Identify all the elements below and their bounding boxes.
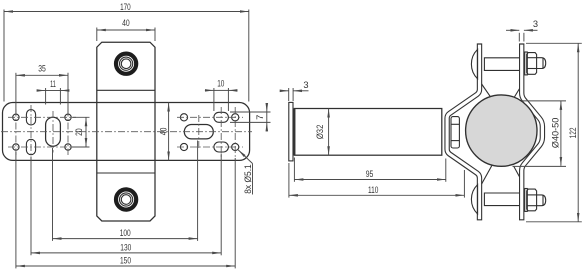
bolt head xyxy=(471,49,477,78)
leader 8x Ø5.1 xyxy=(238,150,253,195)
svg-text:10: 10 xyxy=(217,78,224,88)
svg-text:11: 11 xyxy=(50,79,56,89)
svg-text:20: 20 xyxy=(74,128,84,136)
slot oval H1 xyxy=(214,112,229,122)
centerline col x31 xyxy=(30,105,32,160)
bolt shaft xyxy=(484,58,519,71)
hole B1 xyxy=(65,114,71,120)
boss bottom (grommet) xyxy=(116,189,136,209)
svg-text:7: 7 xyxy=(255,115,265,120)
dimension 40 vertical xyxy=(159,103,169,161)
dimension 3 left xyxy=(281,80,309,101)
top bolt assembly xyxy=(471,49,545,78)
clamp nut block xyxy=(451,117,459,148)
dimension Ø32 xyxy=(315,109,328,156)
slot oval V1 xyxy=(26,110,35,125)
hole B2 xyxy=(65,144,71,150)
strap cross line bottom-right xyxy=(514,166,520,177)
hole C1 xyxy=(180,114,187,121)
svg-text:100: 100 xyxy=(120,228,131,238)
centerline col x235.2 xyxy=(234,107,236,158)
svg-text:110: 110 xyxy=(368,185,378,195)
svg-text:8x Ø5.1: 8x Ø5.1 xyxy=(243,164,253,194)
dimension 150 xyxy=(16,152,235,268)
dimension 110 xyxy=(289,163,465,198)
centerline col x221.2 xyxy=(220,107,222,158)
svg-text:130: 130 xyxy=(120,242,131,252)
tube body xyxy=(294,109,442,156)
clamp strap right (inner white) xyxy=(522,45,543,220)
strap cross line top-right xyxy=(514,89,520,99)
dimension 95 xyxy=(294,158,445,182)
svg-text:95: 95 xyxy=(366,169,374,179)
clamp strap left (inner white) xyxy=(447,45,479,220)
strap cross line top-left xyxy=(482,84,492,98)
centerline row2 right xyxy=(177,146,243,148)
boss top (grommet) xyxy=(116,54,136,74)
slot oval H2 xyxy=(214,142,229,152)
centerline col x68 xyxy=(67,110,69,156)
svg-text:40: 40 xyxy=(122,18,130,28)
dimension 10 xyxy=(205,78,238,111)
strap cross line bottom-left xyxy=(482,166,492,184)
tube flange disc xyxy=(289,102,293,160)
dimension 35 xyxy=(16,63,68,113)
dimension 3 right xyxy=(506,19,538,41)
centerline row1 right xyxy=(177,116,243,118)
base plate xyxy=(3,103,250,161)
nut xyxy=(527,53,537,75)
centerline mid horizontal xyxy=(1,131,252,133)
dimension 7 xyxy=(230,103,271,131)
column upper edge line xyxy=(97,89,155,91)
dimension 11 xyxy=(37,79,69,105)
hole D1 xyxy=(232,114,239,121)
clamp strap right (outer dark) xyxy=(522,43,543,220)
centerline row1 left xyxy=(8,116,76,118)
hole D2 xyxy=(232,143,239,150)
svg-text:150: 150 xyxy=(120,256,131,266)
svg-text:3: 3 xyxy=(533,19,538,29)
central slot right xyxy=(184,125,213,139)
dimension 40 top xyxy=(97,18,155,41)
centerline col x198.8 xyxy=(198,115,200,149)
clamp strap left (outer dark) xyxy=(447,43,479,220)
column lower edge line xyxy=(97,172,155,174)
column (vertical holder plate) xyxy=(97,42,155,221)
svg-text:35: 35 xyxy=(38,63,46,73)
dimension Ø40-50 xyxy=(513,101,567,166)
svg-text:3: 3 xyxy=(303,80,308,90)
centerline col x16 xyxy=(15,110,17,156)
hole C2 xyxy=(180,143,187,150)
central slot left xyxy=(46,117,61,146)
dimension 122 xyxy=(526,43,582,222)
svg-text:Ø40-50: Ø40-50 xyxy=(550,118,560,149)
stud tip xyxy=(537,58,546,69)
dimension 170 xyxy=(4,2,249,101)
centerline row2 left xyxy=(8,146,76,148)
svg-text:122: 122 xyxy=(568,127,578,138)
dimension 130 xyxy=(31,154,221,256)
centerline col x53 xyxy=(52,111,54,153)
bottom bolt assembly xyxy=(471,185,545,214)
dimension 100 xyxy=(53,141,198,241)
washer xyxy=(525,52,528,75)
slot oval V2 xyxy=(26,139,35,154)
svg-text:170: 170 xyxy=(120,2,131,12)
svg-text:40: 40 xyxy=(159,128,169,136)
svg-text:Ø32: Ø32 xyxy=(315,125,325,140)
hole A1 xyxy=(13,114,19,120)
dimension 20 xyxy=(72,117,90,147)
hole A2 xyxy=(13,144,19,150)
pipe (clamped tube) xyxy=(466,95,537,166)
